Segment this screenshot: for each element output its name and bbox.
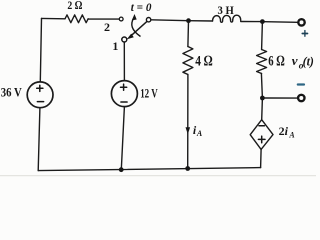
- svg-text:t = 0: t = 0: [131, 0, 152, 14]
- svg-text:A: A: [288, 131, 295, 140]
- svg-text:4 Ω: 4 Ω: [195, 54, 213, 70]
- svg-text:6 Ω: 6 Ω: [268, 54, 285, 70]
- svg-text:2i: 2i: [279, 124, 289, 138]
- svg-text:36 V: 36 V: [1, 85, 23, 100]
- svg-text:1: 1: [112, 39, 118, 53]
- svg-text:v: v: [292, 53, 298, 68]
- svg-text:3 H: 3 H: [218, 5, 234, 17]
- svg-text:2 Ω: 2 Ω: [67, 0, 82, 12]
- svg-text:(t): (t): [303, 54, 314, 68]
- svg-text:A: A: [196, 129, 203, 138]
- svg-text:2: 2: [104, 20, 110, 34]
- svg-text:12 V: 12 V: [140, 85, 158, 100]
